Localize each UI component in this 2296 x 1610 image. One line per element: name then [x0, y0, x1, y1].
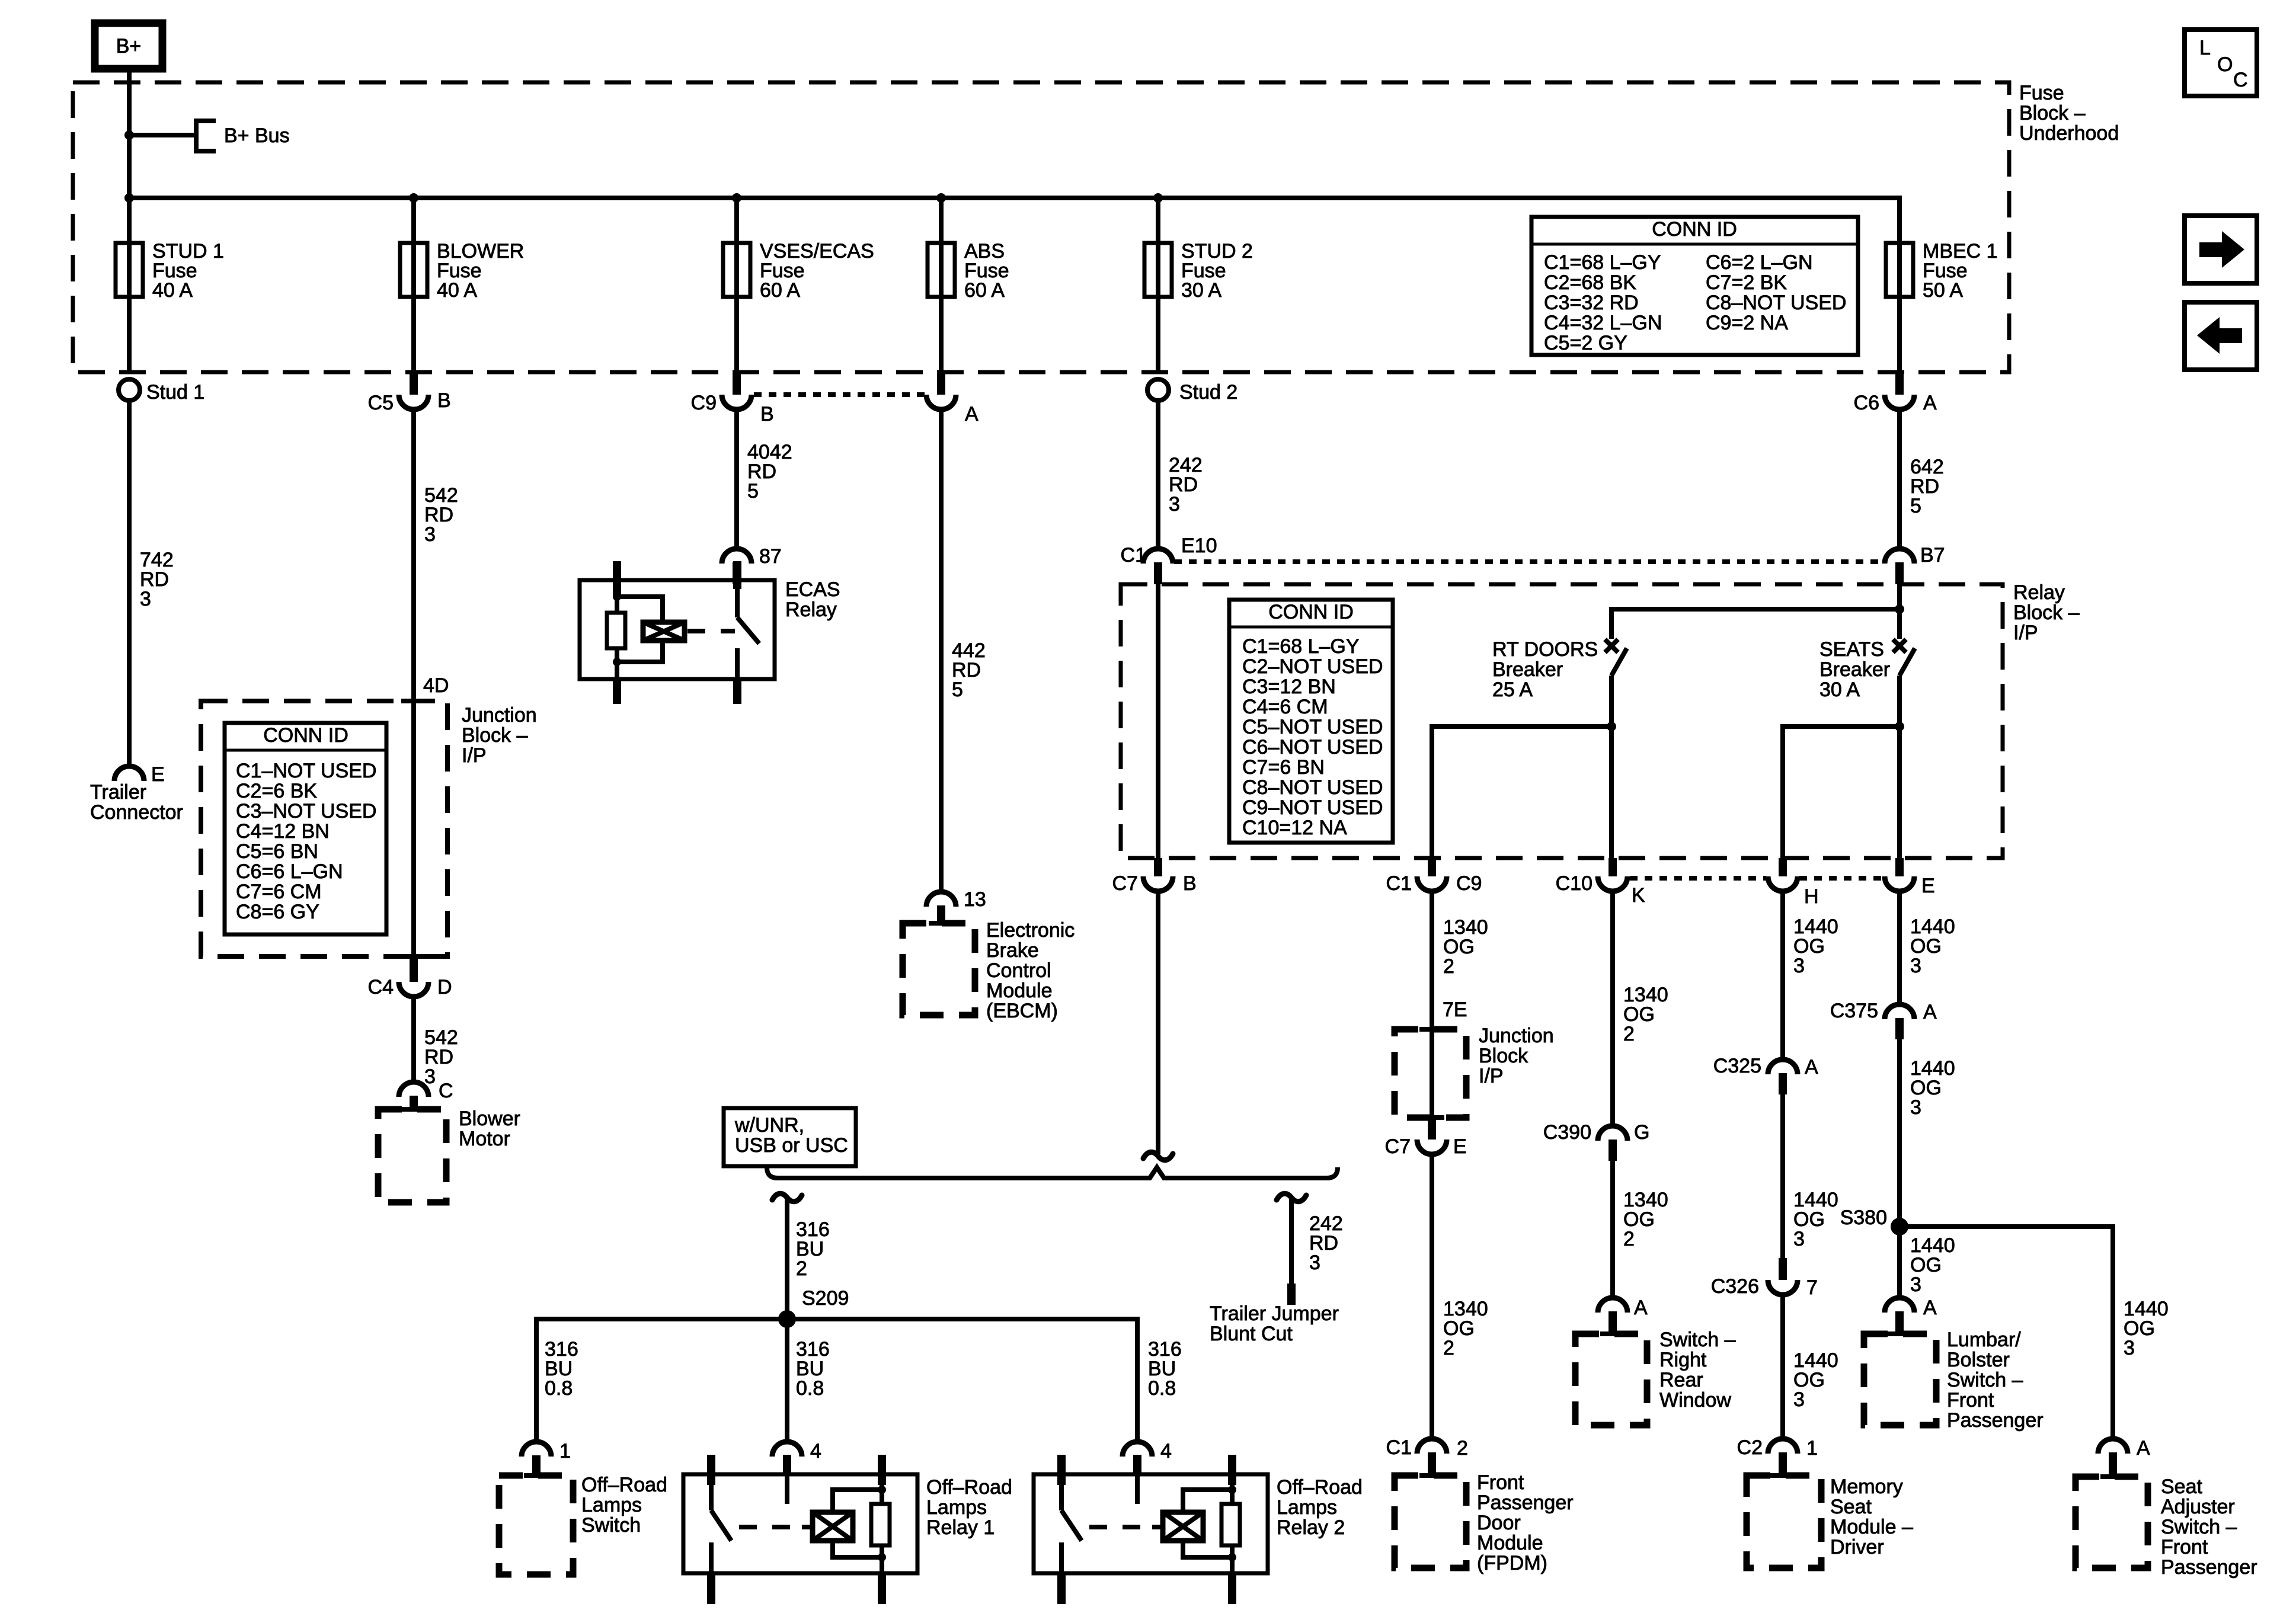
- svg-text:A: A: [965, 403, 978, 425]
- wire 1340 OG C1-C9 to junction block IP: [1430, 891, 1434, 1029]
- dotted connector tie C10 K-H: [1630, 876, 1766, 881]
- svg-text:C6=2 L–GN: C6=2 L–GN: [1706, 251, 1813, 274]
- svg-text:7: 7: [1806, 1276, 1818, 1299]
- wire label 742 RD 3: [140, 549, 174, 610]
- wire label 1440 OG 3 h-mid: [1793, 1189, 1838, 1250]
- wire S380 to lumbar switch: [1897, 1227, 1902, 1298]
- svg-text:Lamps: Lamps: [581, 1494, 642, 1516]
- junction block IP small dashed box: [1419, 1027, 1444, 1032]
- svg-text:40 A: 40 A: [437, 279, 477, 302]
- svg-text:Control: Control: [986, 959, 1051, 982]
- wire to C326: [1780, 1094, 1785, 1258]
- LOC legend box: [2185, 30, 2257, 96]
- svg-text:C4=32 L–GN: C4=32 L–GN: [1544, 312, 1662, 334]
- svg-text:Brake: Brake: [986, 939, 1039, 962]
- connector cavity A abs: [926, 372, 978, 425]
- connector C4 cavity D: [368, 956, 452, 998]
- fuse BLOWER 40 A: [400, 240, 524, 302]
- svg-text:3: 3: [1910, 955, 1921, 977]
- svg-text:Lamps: Lamps: [1277, 1496, 1337, 1519]
- svg-text:0.8: 0.8: [1148, 1377, 1176, 1400]
- wire label 1340 OG 2 upper: [1443, 916, 1488, 978]
- svg-text:C8=6 GY: C8=6 GY: [236, 901, 319, 923]
- wire label 316 BU 0.8 right: [1148, 1338, 1182, 1400]
- connector pin 13 ebcm: [926, 888, 986, 923]
- option tag box w/UNR USB or USC: [724, 1108, 856, 1166]
- label RT DOORS Breaker 25 A: [1492, 638, 1598, 701]
- svg-text:5: 5: [1910, 495, 1921, 517]
- svg-text:3: 3: [1793, 1228, 1805, 1250]
- svg-text:L: L: [2199, 37, 2211, 59]
- blower motor dashed box: [401, 1107, 426, 1112]
- T-bar junction block bottom: [401, 954, 426, 959]
- connector C10 cavity K: [1556, 858, 1645, 907]
- wire 542 RD fuse to junction block: [411, 409, 416, 701]
- wire to B+ Bus symbol: [129, 133, 196, 137]
- connector C1 cavity 2 FPDM: [1386, 1436, 1468, 1476]
- wire label 316 BU 0.8 left: [545, 1338, 578, 1400]
- svg-text:D: D: [437, 976, 452, 998]
- wire B7 into relay block: [1897, 580, 1902, 609]
- svg-text:Electronic: Electronic: [986, 919, 1075, 942]
- wire through junction block IP: [1430, 1029, 1434, 1118]
- svg-text:A: A: [1923, 1297, 1937, 1319]
- junction dot bus abs: [936, 193, 946, 203]
- dotted connector tie C9 to A: [754, 392, 925, 397]
- svg-text:Trailer: Trailer: [90, 781, 146, 804]
- arrow right legend box: [2185, 216, 2257, 283]
- svg-text:CONN ID: CONN ID: [1268, 601, 1354, 623]
- label Relay Block - I/P: [2013, 581, 2080, 644]
- svg-text:C6: C6: [1854, 392, 1879, 414]
- ecas relay switch linkage dashed: [687, 629, 735, 633]
- junction dot SEATS output: [1895, 722, 1904, 731]
- label Trailer Jumper Blunt Cut: [1210, 1302, 1339, 1345]
- svg-text:Block –: Block –: [2019, 102, 2086, 124]
- wire to S380: [1897, 1039, 1902, 1227]
- svg-text:Junction: Junction: [462, 704, 537, 726]
- wire label 542 RD 3 lower: [424, 1026, 458, 1088]
- memory seat module dashed box: [1770, 1473, 1795, 1478]
- wire label 242 RD 3: [1169, 454, 1203, 516]
- svg-text:G: G: [1634, 1121, 1649, 1144]
- wire label 316 BU 2: [796, 1218, 830, 1280]
- svg-text:3: 3: [2124, 1337, 2135, 1359]
- svg-text:C9=2 NA: C9=2 NA: [1706, 312, 1788, 334]
- connector cavity B7 relay block: [1885, 544, 1945, 584]
- wire 242 RD stud2 to E10: [1156, 401, 1160, 549]
- svg-text:C10=12 NA: C10=12 NA: [1242, 817, 1347, 839]
- svg-text:C5=6 BN: C5=6 BN: [236, 840, 318, 863]
- svg-text:A: A: [1805, 1056, 1818, 1078]
- wire label 442 RD 5: [952, 639, 986, 701]
- connector C1 cavity C9: [1386, 858, 1482, 895]
- svg-text:Relay 2: Relay 2: [1277, 1516, 1345, 1539]
- fuse VSES/ECAS 60 A: [723, 240, 874, 302]
- svg-text:H: H: [1804, 885, 1819, 908]
- label Junction Block - I/P: [462, 704, 537, 767]
- label Front Passenger Door Module FPDM: [1477, 1471, 1574, 1574]
- svg-text:B: B: [437, 389, 451, 412]
- svg-text:Lamps: Lamps: [926, 1496, 987, 1519]
- label Electronic Brake Control Module (EBCM): [986, 919, 1075, 1022]
- ecas relay switch: [733, 561, 741, 589]
- svg-text:A: A: [1923, 1001, 1937, 1023]
- svg-text:C9: C9: [691, 392, 717, 414]
- option brace: [767, 1167, 1338, 1178]
- svg-text:C1: C1: [1386, 1436, 1412, 1459]
- off-road lamps relay 1: [683, 1440, 1012, 1604]
- svg-text:I/P: I/P: [462, 744, 487, 767]
- svg-text:2: 2: [1443, 1337, 1454, 1359]
- svg-text:C2: C2: [1737, 1436, 1763, 1459]
- svg-text:40 A: 40 A: [152, 279, 193, 302]
- svg-text:4: 4: [1160, 1440, 1172, 1462]
- svg-text:C6–NOT USED: C6–NOT USED: [1242, 736, 1383, 758]
- svg-text:Front: Front: [2161, 1536, 2208, 1558]
- svg-text:Switch –: Switch –: [2161, 1516, 2237, 1538]
- lumbar bolster switch dashed box: [1887, 1331, 1912, 1336]
- label Off-Road Lamps Switch: [581, 1474, 667, 1537]
- wire inside junction block: [411, 701, 416, 956]
- svg-text:2: 2: [1623, 1228, 1635, 1250]
- svg-text:E: E: [1453, 1135, 1467, 1158]
- svg-text:Connector: Connector: [90, 801, 183, 824]
- svg-text:C1–NOT USED: C1–NOT USED: [236, 760, 376, 782]
- splice S209: [778, 1310, 796, 1328]
- wire S380 to seat adjuster: [1900, 1227, 2113, 1439]
- wire through fuse ABS: [939, 198, 944, 372]
- CONN ID table junction block: [225, 723, 386, 934]
- wire B+ down to bus: [127, 69, 132, 198]
- svg-text:C7=6 BN: C7=6 BN: [1242, 756, 1325, 779]
- svg-text:2: 2: [796, 1257, 807, 1280]
- wire 542 RD junction block to blower motor: [411, 997, 416, 1082]
- FPDM dashed box: [1419, 1473, 1444, 1478]
- svg-text:Passenger: Passenger: [1947, 1409, 2044, 1432]
- fuse ABS 60 A: [928, 240, 1009, 302]
- relay block I/P dashed box: [1121, 584, 2003, 858]
- svg-text:4: 4: [810, 1440, 821, 1462]
- dotted connector tie H-E: [1799, 876, 1884, 881]
- svg-text:Right: Right: [1659, 1349, 1707, 1371]
- svg-text:C7: C7: [1112, 872, 1138, 895]
- connector cavity E: [1885, 858, 1935, 897]
- svg-text:Module: Module: [1477, 1532, 1543, 1554]
- option hook left branch: [772, 1193, 802, 1201]
- dotted connector line E10 to B7: [1174, 559, 1884, 564]
- svg-text:Relay 1: Relay 1: [926, 1516, 994, 1539]
- svg-text:Breaker: Breaker: [1819, 658, 1890, 681]
- svg-text:3: 3: [1169, 493, 1180, 516]
- svg-text:RT DOORS: RT DOORS: [1492, 638, 1598, 661]
- B+ Bus bar symbol: [196, 119, 290, 153]
- ecas relay resistor: [607, 613, 625, 648]
- svg-text:CONN ID: CONN ID: [1652, 218, 1737, 241]
- svg-text:30 A: 30 A: [1181, 279, 1221, 302]
- switch right rear window dashed box: [1600, 1331, 1625, 1336]
- CONN ID table fuse block: [1531, 217, 1858, 355]
- connector C325 cavity A: [1713, 1055, 1818, 1094]
- svg-text:C9: C9: [1456, 872, 1482, 895]
- wire label 1440 OG 3 seat adjuster: [2124, 1298, 2169, 1359]
- svg-text:C5=2 GY: C5=2 GY: [1544, 332, 1627, 354]
- wire label 542 RD 3: [424, 484, 458, 546]
- stud 1 terminal circle: [119, 379, 140, 401]
- svg-text:CONN ID: CONN ID: [263, 724, 348, 747]
- svg-text:K: K: [1632, 884, 1645, 907]
- svg-text:Breaker: Breaker: [1492, 658, 1563, 681]
- svg-text:Seat: Seat: [1830, 1496, 1872, 1518]
- junction dot RT DOORS output: [1607, 722, 1616, 731]
- connector C1 cavity E10: [1121, 534, 1217, 584]
- wire S209 to relay1: [785, 1319, 789, 1442]
- wire label 1440 OG 3 h-upper: [1793, 916, 1838, 977]
- junction dot ecas coil bottom: [613, 658, 621, 666]
- wire C7 B down to option split with end squiggle: [1156, 891, 1160, 1154]
- ECAS relay box: [580, 580, 775, 679]
- ecas relay bottom-left stub: [613, 679, 621, 704]
- junction dot ecas coil top: [613, 593, 621, 601]
- svg-text:E: E: [1921, 875, 1935, 897]
- wire through fuse BLOWER: [411, 198, 416, 372]
- svg-text:C: C: [2233, 69, 2248, 91]
- wire through fuse MBEC 1: [1897, 198, 1902, 372]
- connector cavity A lumbar: [1885, 1297, 1937, 1334]
- svg-text:Bolster: Bolster: [1947, 1349, 2010, 1371]
- wire label 1340 OG 2 lower: [1443, 1298, 1488, 1359]
- svg-text:Junction: Junction: [1479, 1025, 1554, 1047]
- wire label 642 RD 5: [1910, 456, 1944, 517]
- wire label 4042 RD 5: [747, 441, 792, 502]
- label Fuse Block - Underhood: [2019, 82, 2119, 145]
- svg-text:3: 3: [140, 588, 151, 610]
- svg-text:3: 3: [1793, 955, 1805, 977]
- svg-text:Relay: Relay: [785, 598, 837, 621]
- main bus wire: [129, 198, 1900, 243]
- wire through fuse STUD 1: [127, 198, 132, 372]
- svg-text:Rear: Rear: [1659, 1369, 1703, 1391]
- svg-text:C325: C325: [1713, 1055, 1761, 1077]
- seat adjuster switch dashed box: [2100, 1474, 2125, 1479]
- svg-text:5: 5: [952, 678, 963, 701]
- svg-text:C3=12 BN: C3=12 BN: [1242, 676, 1336, 698]
- svg-text:Module –: Module –: [1830, 1516, 1913, 1538]
- svg-text:C2–NOT USED: C2–NOT USED: [1242, 655, 1383, 678]
- connector C375 cavity A: [1830, 1000, 1937, 1039]
- off-road lamps switch dashed box: [524, 1473, 549, 1478]
- svg-text:Passenger: Passenger: [1477, 1491, 1574, 1514]
- svg-text:Motor: Motor: [459, 1128, 510, 1150]
- wire RT DOORS to C1-C9: [1432, 726, 1611, 858]
- wire through fuse STUD 2: [1156, 198, 1160, 372]
- label Blower Motor: [459, 1108, 520, 1150]
- svg-text:5: 5: [747, 480, 759, 502]
- wire SEATS to H: [1783, 726, 1900, 858]
- svg-text:Memory: Memory: [1830, 1475, 1903, 1498]
- junction block I/P dashed box: [201, 701, 447, 956]
- wire 316 BU to S209: [785, 1199, 789, 1319]
- EBCM dashed box: [929, 921, 954, 926]
- connector cavity C blower motor: [399, 1080, 453, 1110]
- connector C7 cavity E: [1385, 1118, 1467, 1158]
- label Seat Adjuster Switch Front Passenger: [2161, 1475, 2257, 1579]
- wire label 316 BU 0.8 mid: [796, 1338, 830, 1400]
- svg-text:Module: Module: [986, 980, 1053, 1002]
- svg-text:C8–NOT USED: C8–NOT USED: [1706, 292, 1846, 314]
- svg-text:Front: Front: [1947, 1389, 1994, 1411]
- svg-text:C10: C10: [1556, 872, 1593, 895]
- svg-text:B+ Bus: B+ Bus: [224, 124, 290, 147]
- svg-text:7E: 7E: [1443, 998, 1467, 1021]
- svg-text:C1=68 L–GY: C1=68 L–GY: [1544, 251, 1661, 274]
- svg-text:C1: C1: [1121, 544, 1146, 566]
- svg-text:A: A: [1634, 1297, 1648, 1319]
- svg-text:Switch –: Switch –: [1947, 1369, 2023, 1391]
- arrow left legend box: [2185, 302, 2257, 370]
- svg-text:Trailer Jumper: Trailer Jumper: [1210, 1302, 1339, 1325]
- svg-text:C390: C390: [1543, 1121, 1591, 1144]
- svg-text:Switch: Switch: [581, 1514, 641, 1537]
- connector C9 cavity B vses: [691, 372, 774, 425]
- svg-text:C: C: [439, 1080, 453, 1102]
- label Memory Seat Module Driver: [1830, 1475, 1913, 1558]
- connector cavity H: [1768, 858, 1819, 908]
- connector cavity A right rear window: [1598, 1297, 1648, 1334]
- svg-text:C1=68 L–GY: C1=68 L–GY: [1242, 635, 1360, 658]
- wire 1340 OG to FPDM: [1430, 1154, 1434, 1439]
- junction dot bus stud2: [1153, 193, 1163, 203]
- wire 1440 OG E to C375: [1897, 891, 1902, 1004]
- wire 1440 OG H to C325: [1780, 891, 1785, 1060]
- svg-text:3: 3: [1910, 1096, 1921, 1119]
- svg-text:Blunt Cut: Blunt Cut: [1210, 1323, 1293, 1345]
- wire 742 RD stud1 to trailer connector: [127, 401, 132, 766]
- wire label 242 RD 3 jumper: [1309, 1212, 1343, 1274]
- wire label 1440 OG 3 e-mid: [1910, 1057, 1955, 1119]
- svg-text:2: 2: [1443, 955, 1454, 978]
- svg-text:Block –: Block –: [462, 724, 528, 747]
- svg-text:Stud 2: Stud 2: [1179, 381, 1237, 404]
- svg-text:Lumbar/: Lumbar/: [1947, 1329, 2021, 1351]
- svg-text:1: 1: [559, 1440, 571, 1462]
- svg-text:3: 3: [1309, 1251, 1320, 1274]
- wire 1340 OG to right rear window switch: [1610, 1160, 1615, 1298]
- svg-text:ECAS: ECAS: [785, 578, 840, 601]
- svg-text:C326: C326: [1711, 1275, 1759, 1298]
- svg-text:USB or USC: USB or USC: [735, 1134, 848, 1157]
- svg-text:C6=6 L–GN: C6=6 L–GN: [236, 860, 343, 883]
- wire 4042 RD fuse to ecas relay: [734, 409, 739, 549]
- wire label 1340 OG 2 k-upper: [1623, 984, 1668, 1045]
- svg-text:A: A: [1923, 392, 1937, 414]
- svg-text:B+: B+: [116, 35, 142, 57]
- option hook right branch: [1277, 1193, 1306, 1201]
- svg-text:C8–NOT USED: C8–NOT USED: [1242, 776, 1383, 799]
- svg-text:50 A: 50 A: [1923, 279, 1963, 302]
- connector C2 cavity 1 memory seat: [1737, 1436, 1818, 1476]
- connector C6 cavity A mbec: [1854, 372, 1937, 414]
- svg-text:25 A: 25 A: [1492, 678, 1533, 701]
- wire 242 RD trailer jumper: [1289, 1199, 1294, 1283]
- connector C7 cavity B: [1112, 858, 1197, 895]
- connector C390 cavity G: [1543, 1121, 1650, 1161]
- wire to memory seat module: [1780, 1295, 1785, 1439]
- wire E10 through relay block: [1156, 580, 1160, 858]
- svg-text:Off–Road: Off–Road: [581, 1474, 667, 1496]
- svg-text:2: 2: [1623, 1023, 1635, 1045]
- svg-text:Underhood: Underhood: [2019, 122, 2119, 145]
- svg-text:Seat: Seat: [2161, 1475, 2202, 1498]
- svg-text:C4=6 CM: C4=6 CM: [1242, 696, 1328, 718]
- trailer connector cavity E: [114, 763, 165, 786]
- svg-text:Driver: Driver: [1830, 1536, 1884, 1558]
- wire 642 RD fuse to B7: [1897, 409, 1902, 549]
- svg-text:C7=2 BK: C7=2 BK: [1706, 271, 1787, 294]
- svg-text:60 A: 60 A: [964, 279, 1005, 302]
- svg-text:87: 87: [759, 545, 782, 568]
- svg-text:I/P: I/P: [1479, 1065, 1504, 1087]
- ecas relay coil: [643, 622, 685, 641]
- svg-text:Block –: Block –: [2013, 601, 2080, 624]
- svg-text:E: E: [151, 763, 165, 786]
- svg-text:O: O: [2217, 53, 2233, 76]
- junction dot B7 breaker feed: [1895, 604, 1904, 614]
- svg-text:C375: C375: [1830, 1000, 1878, 1022]
- wire S209 distribution: [536, 1319, 1137, 1442]
- svg-text:2: 2: [1457, 1437, 1468, 1459]
- svg-text:Adjuster: Adjuster: [2161, 1496, 2235, 1518]
- svg-text:(EBCM): (EBCM): [986, 1000, 1058, 1022]
- SEATS breaker 30A: [1893, 609, 1915, 726]
- svg-text:S380: S380: [1840, 1206, 1887, 1229]
- connector C326 cavity 7: [1711, 1258, 1818, 1299]
- svg-text:Front: Front: [1477, 1471, 1524, 1494]
- svg-text:C5: C5: [368, 392, 394, 414]
- svg-text:I/P: I/P: [2013, 622, 2038, 644]
- wire breaker feed to RT DOORS: [1611, 609, 1900, 639]
- svg-text:Door: Door: [1477, 1512, 1521, 1534]
- wire 442 RD fuse to ebcm: [939, 409, 944, 892]
- svg-text:3: 3: [424, 523, 436, 546]
- svg-text:Passenger: Passenger: [2161, 1556, 2257, 1579]
- svg-text:C3–NOT USED: C3–NOT USED: [236, 800, 376, 822]
- fuse MBEC 1 50 A: [1886, 240, 1998, 302]
- wire label 1440 OG 3 h-lower: [1793, 1349, 1838, 1411]
- svg-text:Off–Road: Off–Road: [1277, 1476, 1363, 1499]
- label Lumbar Bolster Switch Front Passenger: [1947, 1329, 2044, 1432]
- label Junction Block I/P: [1479, 1025, 1554, 1087]
- svg-text:C7: C7: [1385, 1135, 1411, 1158]
- RT DOORS breaker 25A: [1605, 639, 1627, 726]
- ecas relay left terminal stub: [613, 561, 621, 598]
- svg-text:C1: C1: [1386, 872, 1412, 895]
- label ECAS Relay: [785, 578, 840, 621]
- svg-text:B: B: [1183, 872, 1197, 895]
- svg-text:Window: Window: [1659, 1389, 1731, 1411]
- svg-text:Block: Block: [1479, 1045, 1528, 1067]
- wire RT DOORS to C10-K: [1609, 726, 1614, 858]
- svg-text:3: 3: [1793, 1388, 1805, 1411]
- junction dot bus blower: [409, 193, 418, 203]
- svg-text:B: B: [760, 403, 774, 425]
- svg-text:60 A: 60 A: [760, 279, 800, 302]
- wire label 1340 OG 2 k-lower: [1623, 1189, 1668, 1250]
- off-road lamps relay 2: [1034, 1440, 1363, 1604]
- fuse block underhood dashed box: [73, 82, 2009, 372]
- svg-text:Stud 1: Stud 1: [146, 381, 204, 404]
- svg-text:Relay: Relay: [2013, 581, 2065, 604]
